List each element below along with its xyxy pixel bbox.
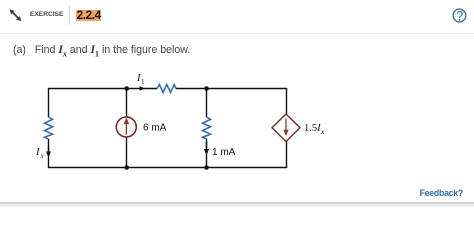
EXERCISE label <box>30 11 63 18</box>
vertical divider <box>69 6 70 25</box>
svg-text:x: x <box>320 127 325 136</box>
resistor R1 (top) <box>157 85 176 93</box>
wire branch3 upper <box>206 89 208 118</box>
svg-text:1: 1 <box>141 78 145 86</box>
svg-text:1 mA: 1 mA <box>212 147 236 158</box>
current arrow I1 on top wire <box>140 86 145 91</box>
node bottom-2 <box>124 165 129 170</box>
resistor R3 (1 mA branch) <box>203 117 211 139</box>
wire bottom <box>48 167 287 169</box>
node top-2 <box>124 86 129 91</box>
Feedback link <box>420 188 463 198</box>
svg-text:1.5I: 1.5I <box>304 123 321 134</box>
wire branch2 lower <box>126 137 128 168</box>
wire branch3 lower <box>206 139 208 168</box>
exercise number 2.2.4 <box>76 10 101 21</box>
svg-text:I: I <box>35 147 40 158</box>
wire branch2 upper <box>126 89 128 118</box>
wire top-left segment <box>48 88 157 90</box>
wire top-right segment <box>176 88 287 90</box>
wire left lower <box>48 139 50 168</box>
header bar <box>0 0 474 34</box>
current arrow Ix on left wire <box>48 146 50 153</box>
wire right lower <box>286 141 288 168</box>
svg-text:x: x <box>40 152 45 160</box>
resistor Rx (left, Ix branch) <box>45 117 53 139</box>
svg-text:6 mA: 6 mA <box>143 123 167 134</box>
dependent source 1.5Ix (diamond) <box>272 114 300 142</box>
expand icon <box>8 7 23 23</box>
node top-3 <box>204 86 209 91</box>
wire left upper <box>48 89 50 118</box>
help icon <box>452 8 467 23</box>
bottom separator <box>0 202 474 204</box>
wire right upper <box>286 89 288 115</box>
current source 6 mA <box>116 117 136 137</box>
question text <box>13 43 190 58</box>
current arrow 1 mA on branch3 <box>206 142 208 150</box>
node bottom-3 <box>204 165 209 170</box>
